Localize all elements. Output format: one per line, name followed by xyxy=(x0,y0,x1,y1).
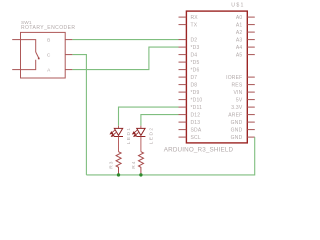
svg-text:A2: A2 xyxy=(236,30,243,36)
wire encoder C to GND rail xyxy=(72,55,86,175)
svg-text:RX: RX xyxy=(191,15,199,21)
wire D11 to LED1 anode xyxy=(119,107,179,126)
SW1 internal switch xyxy=(21,40,39,70)
pin D6 xyxy=(179,69,187,71)
resistor R4 xyxy=(139,152,144,175)
svg-text:*D3: *D3 xyxy=(191,45,200,51)
svg-text:LED1: LED1 xyxy=(126,127,132,145)
pin 3.3V xyxy=(247,106,255,108)
svg-text:R3: R3 xyxy=(109,160,115,168)
pin TX xyxy=(179,24,187,26)
svg-text:GND: GND xyxy=(231,120,243,126)
svg-text:D8: D8 xyxy=(191,82,198,88)
pin D9 xyxy=(179,91,187,93)
SW1 pin S1 (left top stub) xyxy=(12,39,20,41)
svg-text:*D11: *D11 xyxy=(191,105,203,111)
pin A1 xyxy=(247,24,255,26)
pin A3 xyxy=(247,39,255,41)
SW1 lever tip dot xyxy=(38,58,40,60)
pin A2 xyxy=(247,31,255,33)
wire encoder B to D2 xyxy=(72,39,178,41)
pin VIN xyxy=(247,91,255,93)
pin A4 xyxy=(247,46,255,48)
pin SCL xyxy=(179,136,187,138)
junction dot LED1/R3 to rail xyxy=(117,173,120,176)
LED1 emission arrows xyxy=(110,130,116,136)
svg-text:*D9: *D9 xyxy=(191,90,200,96)
pin 5V xyxy=(247,99,255,101)
junction dot LED2/R4 to rail xyxy=(139,173,142,176)
LED2 anode lead xyxy=(140,126,142,129)
svg-text:SCL: SCL xyxy=(191,135,201,141)
svg-text:*D6: *D6 xyxy=(191,67,200,73)
pin D12 xyxy=(179,114,187,116)
svg-text:A4: A4 xyxy=(236,45,243,51)
pin D3 xyxy=(179,46,187,48)
svg-text:SDA: SDA xyxy=(191,127,202,133)
svg-text:D12: D12 xyxy=(191,112,201,118)
svg-text:D2: D2 xyxy=(191,37,198,43)
LED1 cathode lead xyxy=(118,137,120,152)
svg-text:3.3V: 3.3V xyxy=(231,105,243,111)
svg-text:R4: R4 xyxy=(131,160,137,168)
svg-text:U$1: U$1 xyxy=(231,2,244,8)
svg-text:D13: D13 xyxy=(191,120,201,126)
svg-text:GND: GND xyxy=(231,127,243,133)
pin D4 xyxy=(179,54,187,56)
LED1 xyxy=(114,128,123,136)
svg-text:A3: A3 xyxy=(236,37,243,43)
pin AREF xyxy=(247,114,255,116)
pin D11 xyxy=(179,106,187,108)
pin IOREF xyxy=(247,76,255,78)
SW1 pin B stub xyxy=(65,39,72,41)
pin D5 xyxy=(179,61,187,63)
svg-text:A5: A5 xyxy=(236,52,243,58)
svg-text:ARDUINO_R3_SHIELD: ARDUINO_R3_SHIELD xyxy=(164,146,234,153)
pin GND2 xyxy=(247,129,255,131)
SW1 pin C stub xyxy=(65,54,72,56)
svg-text:A1: A1 xyxy=(236,22,243,28)
svg-text:A0: A0 xyxy=(236,15,243,21)
pin D2 xyxy=(179,39,187,41)
svg-text:D7: D7 xyxy=(191,75,198,81)
pin GND3 xyxy=(247,136,255,138)
svg-text:D4: D4 xyxy=(191,52,198,58)
svg-text:ROTARY_ENCODER: ROTARY_ENCODER xyxy=(21,25,75,31)
resistor R3 xyxy=(116,152,121,175)
SW1 pin A stub xyxy=(65,69,72,71)
pin D13 xyxy=(179,121,187,123)
pin D8 xyxy=(179,84,187,86)
wire GND rail xyxy=(86,137,254,175)
pin D10 xyxy=(179,99,187,101)
pin RX xyxy=(179,16,187,18)
SW1 pin S2 (left bottom stub) xyxy=(12,69,20,71)
LED2 xyxy=(136,128,145,136)
wire encoder A to D3 xyxy=(72,47,178,70)
wire D12 to LED2 anode xyxy=(141,115,179,126)
svg-text:C: C xyxy=(47,52,51,58)
U$1 left pin labels xyxy=(191,15,203,141)
pin RES xyxy=(247,84,255,86)
U$1 left pin stubs xyxy=(179,17,187,137)
svg-text:*D10: *D10 xyxy=(191,97,203,103)
svg-text:VIN: VIN xyxy=(233,90,242,96)
svg-text:TX: TX xyxy=(191,22,198,28)
U$1 right pin stubs xyxy=(247,17,255,137)
svg-text:B: B xyxy=(47,37,50,43)
svg-text:5V: 5V xyxy=(236,97,243,103)
LED2 cathode lead xyxy=(140,137,142,152)
svg-text:RES: RES xyxy=(232,82,243,88)
pin A5 xyxy=(247,54,255,56)
LED2 emission arrows xyxy=(133,130,139,136)
pin GND1 xyxy=(247,121,255,123)
U$1 right pin labels xyxy=(226,15,243,141)
pin SDA xyxy=(179,129,187,131)
pin A0 xyxy=(247,16,255,18)
svg-text:*D5: *D5 xyxy=(191,60,200,66)
svg-text:LED2: LED2 xyxy=(149,127,155,145)
svg-text:AREF: AREF xyxy=(228,112,242,118)
arduino shield U$1 box xyxy=(186,11,247,143)
svg-text:IOREF: IOREF xyxy=(226,75,242,81)
svg-text:GND: GND xyxy=(231,135,243,141)
pin D7 xyxy=(179,76,187,78)
rotary encoder SW1 box xyxy=(21,32,66,78)
LED1 anode lead xyxy=(118,126,120,129)
